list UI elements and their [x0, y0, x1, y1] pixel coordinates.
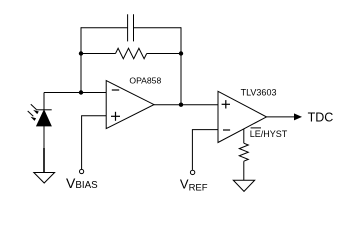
wire R2 to ground	[243, 161, 245, 180]
svg-text:LE/HYST: LE/HYST	[250, 129, 288, 139]
ground GND1	[34, 173, 55, 184]
ground GND2	[233, 180, 254, 191]
wire feedback top left	[81, 27, 128, 29]
U1 plus sign	[111, 112, 120, 121]
wire inverting input net	[44, 92, 106, 94]
wire VBIAS branch	[82, 116, 107, 170]
junction node D (op-amp output)	[179, 103, 183, 107]
wire op-amp output net	[154, 104, 218, 106]
photodiode D1	[36, 110, 52, 126]
svg-text:TLV3603: TLV3603	[241, 88, 277, 98]
light arrow 1	[31, 104, 39, 114]
arrowhead TDC	[294, 113, 302, 120]
light arrow 2	[28, 111, 36, 121]
U1 minus sign	[112, 89, 119, 91]
overline LE	[251, 127, 261, 129]
wire LE/HYST pin	[243, 129, 245, 143]
resistor R1	[81, 48, 181, 58]
terminal circle VBIAS	[80, 169, 84, 173]
wire VREF branch	[192, 130, 218, 170]
junction node B (feedback right / resistor)	[179, 51, 183, 55]
wire photodiode bottom	[43, 126, 45, 173]
wire feedback left vertical	[80, 27, 82, 92]
op-amp U1 OPA858	[106, 81, 154, 129]
U2 plus sign	[222, 100, 230, 108]
junction node C (inverting input)	[79, 90, 83, 94]
svg-text:OPA858: OPA858	[129, 76, 161, 86]
wire feedback right vertical	[180, 27, 182, 104]
terminal circle VREF	[190, 170, 194, 174]
wire output to TDC	[267, 116, 296, 118]
junction node A (feedback left / resistor)	[79, 51, 83, 55]
svg-text:TDC: TDC	[308, 111, 334, 125]
U2 minus sign	[223, 129, 230, 131]
capacitor C1	[128, 14, 134, 41]
comparator U2 TLV3603	[218, 91, 267, 142]
wire feedback top right	[134, 27, 182, 29]
resistor R2 hysteresis	[239, 143, 248, 161]
wire photodiode top	[43, 93, 45, 110]
